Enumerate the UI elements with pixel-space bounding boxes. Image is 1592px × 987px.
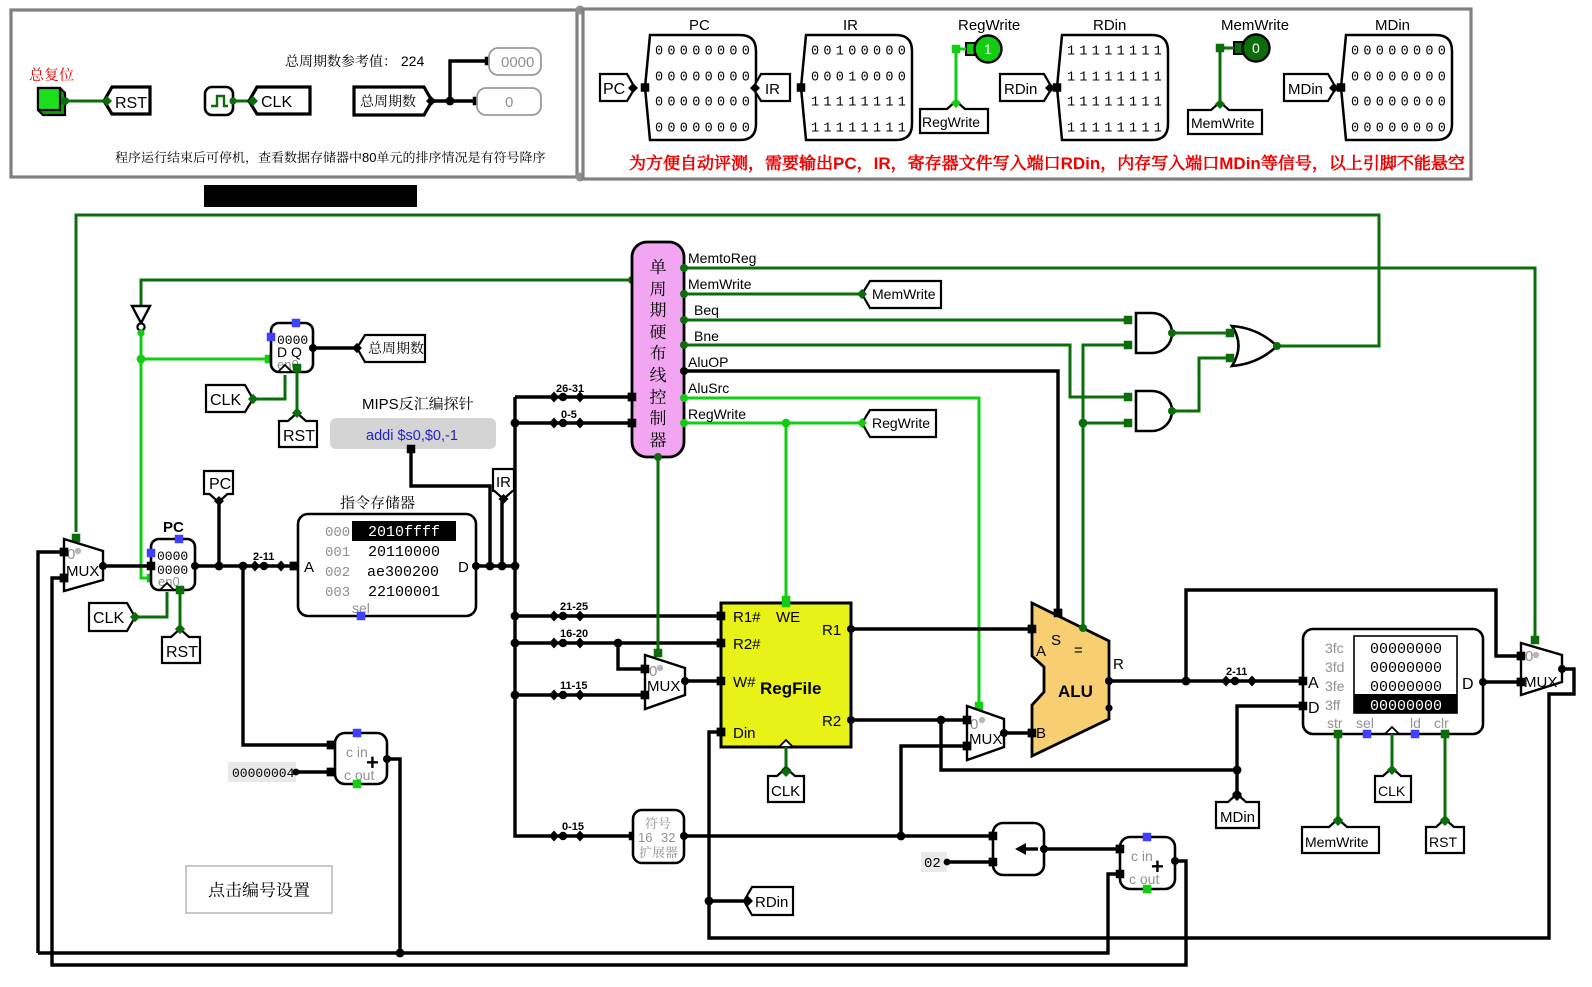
svg-text:MDin: MDin	[1375, 17, 1410, 34]
svg-text:0-5: 0-5	[561, 409, 577, 421]
svg-text:sel: sel	[1356, 715, 1374, 731]
wire 总周期数 to displays	[432, 61, 485, 101]
svg-text:00000000: 00000000	[655, 71, 754, 86]
svg-text:A: A	[1308, 675, 1319, 692]
pin MDin	[1341, 35, 1452, 140]
svg-text:MemWrite: MemWrite	[1191, 115, 1255, 131]
tunnel CLK (PC)	[89, 603, 135, 631]
AND gate 1 (Beq & Zero)	[1136, 313, 1172, 353]
svg-text:MemWrite: MemWrite	[688, 276, 752, 292]
control output RegWrite wire to tunnel and RegFile WE	[680, 419, 688, 427]
svg-text:00000000: 00000000	[655, 122, 754, 137]
svg-text:WE: WE	[776, 609, 800, 626]
RegFile	[721, 603, 851, 747]
wire RAM str to MemWrite tunnel	[1334, 730, 1343, 739]
svg-text:Beq: Beq	[694, 302, 719, 318]
wire net IR bits column with field taps	[515, 397, 717, 836]
svg-text:1: 1	[984, 41, 992, 57]
svg-text:RST: RST	[115, 95, 147, 112]
svg-text:R2#: R2#	[733, 636, 761, 653]
svg-text:总周期数: 总周期数	[368, 338, 424, 358]
svg-text:MUX: MUX	[647, 678, 680, 695]
svg-text:02: 02	[924, 856, 941, 872]
svg-text:00000000: 00000000	[655, 45, 754, 60]
button 总复位 input	[38, 88, 65, 115]
wire RAM D out to right MUX	[1483, 680, 1517, 683]
wire RAM clk	[1391, 734, 1394, 771]
OR gate (branch taken)	[1232, 326, 1277, 366]
svg-text:R1#: R1#	[733, 609, 761, 626]
clock component	[205, 87, 233, 115]
right MUX (MemtoReg)	[1521, 643, 1562, 695]
svg-text:clr: clr	[1434, 715, 1449, 731]
svg-text:RST: RST	[283, 428, 315, 445]
svg-text:20110000: 20110000	[368, 544, 440, 561]
svg-text:ALU: ALU	[1058, 682, 1093, 701]
svg-text:扩展器: 扩展器	[639, 842, 678, 861]
wire counter Q to 总周期数 tunnel	[313, 346, 357, 349]
constant 00000004	[228, 762, 296, 782]
tunnel RegWrite (control)	[862, 410, 936, 437]
svg-text:A: A	[304, 559, 314, 576]
svg-text:B: B	[1036, 725, 1046, 742]
svg-text:002: 002	[325, 565, 350, 581]
svg-text:00000000: 00000000	[655, 96, 754, 111]
svg-text:PC: PC	[163, 519, 184, 536]
svg-text:11111111: 11111111	[1067, 96, 1166, 111]
wire B-MUX out to ALU B	[1004, 731, 1028, 734]
svg-text:00000000: 00000000	[1351, 71, 1450, 86]
svg-text:IR: IR	[843, 17, 858, 34]
svg-text:RDin: RDin	[1004, 81, 1037, 98]
tunnel RegWrite (panel)	[920, 101, 988, 133]
tunnel CLK (RAM)	[1375, 768, 1411, 802]
svg-text:CLK: CLK	[261, 94, 292, 111]
svg-text:=: =	[1074, 642, 1083, 659]
B-MUX (ALU operand B select)	[967, 706, 1004, 760]
svg-text:22100001: 22100001	[368, 584, 440, 601]
tunnel CLK (RegFile)	[768, 768, 804, 802]
wire net ALU result: to RAM A and MemtoReg MUX	[1105, 677, 1113, 685]
constant 02 (shift amount)	[921, 852, 947, 872]
left MUX (PC source select)	[64, 539, 103, 591]
tunnel MemWrite (control)	[862, 281, 941, 308]
svg-text:器: 器	[650, 426, 667, 451]
svg-text:26-31: 26-31	[556, 383, 584, 395]
tunnel RST (RAM)	[1426, 819, 1464, 853]
svg-text:11-15: 11-15	[560, 680, 588, 692]
svg-text:001: 001	[325, 545, 350, 561]
wire PC rst	[176, 586, 185, 595]
inverter (NOT gate) on halt line	[132, 306, 150, 323]
svg-text:003: 003	[325, 585, 350, 601]
svg-text:0: 0	[67, 546, 75, 563]
svg-text:MIPS反汇编探针: MIPS反汇编探针	[362, 393, 474, 414]
svg-text:RST: RST	[1429, 834, 1457, 850]
svg-text:00000004: 00000004	[232, 766, 295, 781]
svg-text:00100000: 00100000	[811, 45, 910, 60]
svg-text:21-25: 21-25	[560, 601, 588, 613]
svg-text:MemtoReg: MemtoReg	[688, 250, 756, 266]
svg-text:R2: R2	[822, 713, 841, 730]
wire RegFile clk	[785, 747, 788, 771]
tunnel tip diamonds (on top)	[102, 96, 112, 106]
svg-text:00000000: 00000000	[1370, 698, 1442, 715]
port connector squares (on top)	[782, 599, 791, 608]
tunnel MDin (store data)	[1216, 794, 1259, 828]
wire net R2: to B-MUX and RAM D with MDin tap	[851, 706, 1299, 795]
svg-text:3fd: 3fd	[1325, 659, 1344, 675]
svg-text:程序运行结束后可停机，查看数据存储器中80单元的排序情况是有: 程序运行结束后可停机，查看数据存储器中80单元的排序情况是有符号降序	[115, 147, 545, 166]
tunnel IR (panel)	[753, 74, 790, 101]
svg-text:RegFile: RegFile	[760, 679, 821, 698]
svg-text:MUX: MUX	[1524, 674, 1557, 691]
svg-text:CLK: CLK	[1378, 783, 1406, 799]
svg-text:Bne: Bne	[694, 328, 719, 344]
svg-text:000: 000	[325, 525, 350, 541]
wire RAM clr to RST tunnel	[1441, 730, 1450, 739]
wire net sign-extended immediate: to B-MUX and shifter	[684, 746, 989, 836]
svg-text:11111111: 11111111	[1067, 71, 1166, 86]
pin RDin	[1057, 35, 1168, 140]
svg-text:2010ffff: 2010ffff	[368, 524, 440, 541]
tunnel CLK (counter)	[206, 385, 253, 412]
svg-text:ld: ld	[1410, 715, 1421, 731]
svg-text:点击编号设置: 点击编号设置	[208, 876, 310, 901]
wire net PC+4: adder out along bottom to left MUX and branch adder	[38, 552, 1116, 953]
ALU zero output dot	[1082, 618, 1085, 627]
svg-text:MemWrite: MemWrite	[1221, 17, 1289, 34]
svg-text:3fc: 3fc	[1325, 640, 1344, 656]
svg-text:c out: c out	[1129, 871, 1159, 887]
svg-text:MUX: MUX	[969, 731, 1002, 748]
svg-text:MUX: MUX	[66, 563, 99, 580]
svg-text:00000000: 00000000	[1370, 641, 1442, 658]
wire net PC value: register Q to instruction memory A, with taps	[195, 502, 331, 772]
svg-text:R1: R1	[822, 622, 841, 639]
svg-text:c in: c in	[1131, 848, 1153, 864]
svg-text:00000000: 00000000	[1351, 45, 1450, 60]
svg-text:IR: IR	[765, 81, 780, 98]
svg-text:D: D	[458, 559, 469, 576]
svg-text:ae300200: ae300200	[367, 564, 439, 581]
svg-text:11111111: 11111111	[1067, 122, 1166, 137]
hex display 0000	[489, 48, 541, 75]
svg-text:00000000: 00000000	[1370, 660, 1442, 677]
wire net halt: control left pin to inverter	[141, 280, 632, 306]
svg-text:总周期数: 总周期数	[360, 91, 416, 111]
tunnel MDin (panel)	[1284, 74, 1336, 101]
svg-text:PC: PC	[209, 476, 231, 493]
svg-text:AluOP: AluOP	[688, 354, 728, 370]
svg-text:0: 0	[505, 94, 513, 111]
wire net instruction D: memory D to IR tunnel, probe, splitter column	[411, 451, 515, 566]
shifter (shift left 2)	[993, 823, 1044, 875]
svg-text:11111111: 11111111	[811, 122, 910, 137]
wire 02 to shifter	[947, 860, 989, 863]
svg-text:总周期数参考值： 224: 总周期数参考值： 224	[285, 51, 424, 71]
control output AluSrc wire to B-MUX select	[680, 394, 688, 402]
tunnel RDin (panel)	[1000, 74, 1052, 101]
svg-text:00000000: 00000000	[1351, 96, 1450, 111]
svg-text:RegWrite: RegWrite	[872, 415, 930, 431]
svg-text:S: S	[1051, 632, 1061, 649]
wire MemWrite pin to tunnel	[1220, 48, 1234, 106]
control unit 单周期硬布线控制器	[632, 242, 684, 457]
svg-text:PC: PC	[603, 81, 625, 98]
svg-text:str: str	[1327, 715, 1343, 731]
svg-text:RDin: RDin	[1093, 17, 1126, 34]
wire counter clk	[253, 375, 285, 399]
svg-text:2-11: 2-11	[253, 551, 274, 563]
wire PC clk	[135, 592, 167, 617]
svg-text:D: D	[1462, 676, 1474, 693]
svg-text:MemWrite: MemWrite	[872, 286, 936, 302]
ALU	[1032, 603, 1109, 756]
svg-text:0000: 0000	[157, 549, 188, 564]
svg-text:CLK: CLK	[771, 783, 800, 800]
wire AND2 out to OR	[1172, 358, 1228, 411]
tunnel 总周期数 (counter output)	[357, 335, 425, 362]
svg-text:c in: c in	[346, 744, 368, 760]
cycle counter register	[271, 323, 313, 372]
tunnel RST (PC)	[162, 629, 200, 663]
svg-text:00000000: 00000000	[1370, 679, 1442, 696]
svg-text:RST: RST	[166, 644, 198, 661]
wire net branch target: branch adder out along bottom to left MUX input 1	[52, 578, 1186, 965]
data memory RAM	[1303, 629, 1483, 734]
svg-text:0-15: 0-15	[562, 821, 584, 833]
black title bar	[204, 185, 417, 207]
svg-text:MemWrite: MemWrite	[1305, 834, 1369, 850]
svg-text:D: D	[1308, 700, 1320, 717]
svg-text:00000000: 00000000	[1351, 122, 1450, 137]
hex display 0	[477, 88, 541, 115]
panel border top-left	[11, 10, 577, 177]
annotation box 点击编号设置	[186, 866, 332, 913]
svg-text:IR: IR	[496, 474, 511, 491]
tunnel PC (fetch)	[204, 471, 233, 502]
svg-text:Din: Din	[733, 725, 756, 742]
svg-text:为方便自动评测，需要输出PC，IR，寄存器文件写入端口RDi: 为方便自动评测，需要输出PC，IR，寄存器文件写入端口RDin，内存写入端口MD…	[629, 149, 1465, 174]
wire net writeback: right MUX out to RegFile Din with RDin tap	[709, 669, 1574, 938]
control output Beq wire to AND1	[680, 316, 688, 324]
wire shifter out to branch adder	[1044, 847, 1116, 850]
wire net R1 to ALU A	[851, 627, 1028, 630]
wire clock to CLK	[235, 100, 253, 103]
pin PC (32-bit output)	[645, 35, 756, 140]
svg-text:RegWrite: RegWrite	[922, 114, 980, 130]
wire net Zero flag: ALU = to AND gates	[1083, 345, 1128, 630]
svg-text:AluSrc: AluSrc	[688, 380, 729, 396]
wire PCmux out to PC register D	[103, 564, 151, 567]
wire W-MUX out to RegFile W#	[685, 679, 717, 682]
wire net branch-taken: OR output to left MUX select	[76, 215, 1379, 532]
svg-text:RDin: RDin	[755, 894, 788, 911]
panel border top-right	[583, 9, 1471, 179]
svg-text:c out: c out	[344, 767, 374, 783]
svg-text:RegWrite: RegWrite	[688, 406, 746, 422]
wire AND1 out to OR	[1172, 332, 1228, 335]
tunnel MemWrite (panel)	[1188, 102, 1262, 134]
tunnel RDin (writeback)	[744, 887, 793, 915]
control output MemWrite wire to tunnel	[680, 290, 688, 298]
tunnel RST	[104, 87, 150, 114]
svg-text:3fe: 3fe	[1325, 678, 1345, 694]
svg-text:CLK: CLK	[210, 392, 241, 409]
tunnel RST (counter)	[279, 413, 317, 447]
svg-text:2-11: 2-11	[1226, 666, 1247, 678]
control output Bne wire to AND2	[680, 341, 688, 349]
control RegDst wire to W-MUX select	[657, 457, 660, 651]
control output MemtoReg wire to right MUX select	[680, 264, 688, 272]
svg-text:W#: W#	[733, 674, 756, 691]
svg-text:CLK: CLK	[93, 610, 124, 627]
svg-text:MDin: MDin	[1220, 809, 1255, 826]
branch adder	[1120, 837, 1175, 889]
tunnel PC (panel)	[600, 74, 635, 101]
tunnel 总周期数	[354, 87, 432, 115]
svg-text:0: 0	[1252, 40, 1260, 56]
wire counter rst	[293, 364, 302, 373]
svg-text:A: A	[1036, 643, 1046, 660]
svg-text:addi $s0,$0,-1: addi $s0,$0,-1	[366, 428, 458, 444]
svg-text:总复位: 总复位	[29, 64, 74, 85]
wire RegWrite pin to tunnel	[956, 49, 966, 105]
tunnel CLK	[249, 87, 310, 114]
svg-text:0000: 0000	[501, 54, 534, 71]
adder PC+4	[335, 733, 387, 784]
svg-text:00010000: 00010000	[811, 71, 910, 86]
svg-text:11111111: 11111111	[1067, 45, 1166, 60]
svg-text:MDin: MDin	[1288, 81, 1323, 98]
W-MUX (write register select)	[645, 655, 685, 709]
wire button to RST	[64, 100, 107, 103]
svg-text:16-20: 16-20	[560, 628, 588, 640]
svg-text:11111111: 11111111	[811, 96, 910, 111]
wire net run-enable (inverter out to PC en and counter en)	[137, 329, 144, 336]
control output AluOP wire to ALU S	[680, 367, 688, 375]
tunnel MemWrite (RAM)	[1302, 819, 1379, 853]
sign extender 符号扩展器	[633, 810, 684, 863]
svg-text:RegWrite: RegWrite	[958, 17, 1020, 34]
svg-text:R: R	[1113, 656, 1124, 673]
svg-text:PC: PC	[689, 17, 710, 34]
svg-text:指令存储器: 指令存储器	[340, 492, 415, 513]
tunnel IR (store)	[493, 469, 514, 499]
svg-text:3ff: 3ff	[1325, 697, 1340, 713]
pin IR	[801, 35, 912, 140]
svg-text:0: 0	[1525, 648, 1533, 665]
AND gate 2 (Bne & NotZero path)	[1136, 391, 1172, 431]
